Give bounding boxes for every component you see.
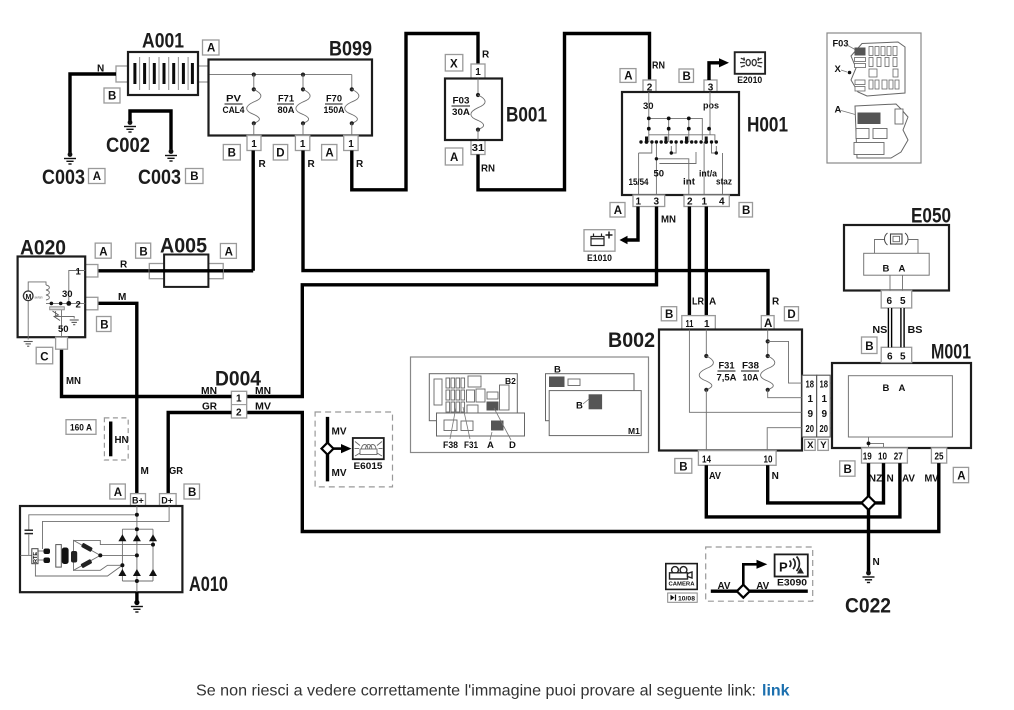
wire LR H001 pin2b to B002 pin11 bbox=[689, 207, 704, 317]
svg-text:50: 50 bbox=[58, 324, 69, 335]
svg-text:D: D bbox=[509, 440, 516, 451]
svg-text:B: B bbox=[108, 91, 116, 103]
wire N B002-10 to M001-10 bbox=[768, 463, 884, 503]
svg-text:link: link bbox=[762, 683, 790, 700]
svg-text:LR: LR bbox=[692, 297, 705, 308]
svg-text:F71: F71 bbox=[278, 94, 295, 105]
svg-text:1: 1 bbox=[348, 139, 354, 150]
svg-text:AV: AV bbox=[902, 474, 915, 485]
svg-text:B: B bbox=[665, 309, 673, 321]
svg-text:1: 1 bbox=[808, 394, 814, 405]
wire M A020-2 to A010 B+ bbox=[98, 292, 149, 494]
svg-text:15/54: 15/54 bbox=[629, 177, 650, 188]
lamp symbol E2010 bbox=[709, 52, 765, 86]
svg-text:C003: C003 bbox=[42, 166, 85, 189]
svg-text:int: int bbox=[683, 177, 696, 188]
wire R A020-1 to B099 PV bbox=[98, 260, 253, 271]
svg-text:M: M bbox=[118, 292, 126, 303]
svg-text:X: X bbox=[807, 440, 814, 451]
svg-text:20: 20 bbox=[806, 424, 815, 435]
ground C002 bbox=[106, 120, 150, 157]
svg-text:160 A: 160 A bbox=[70, 423, 92, 434]
svg-text:R: R bbox=[772, 297, 780, 308]
wire NZ M001-19 to ground C022 bbox=[869, 463, 880, 572]
svg-text:MN: MN bbox=[661, 215, 676, 226]
svg-text:F38: F38 bbox=[443, 440, 458, 451]
svg-text:1: 1 bbox=[702, 197, 708, 208]
svg-text:A: A bbox=[899, 383, 906, 394]
svg-text:staz: staz bbox=[716, 177, 732, 188]
svg-text:X: X bbox=[835, 64, 842, 75]
svg-text:E3090: E3090 bbox=[777, 578, 807, 589]
svg-text:1: 1 bbox=[236, 394, 242, 405]
svg-text:NS: NS bbox=[872, 325, 887, 336]
svg-text:M: M bbox=[141, 466, 149, 477]
svg-text:M: M bbox=[26, 294, 32, 301]
svg-text:C002: C002 bbox=[106, 134, 150, 157]
A020 internals bbox=[23, 267, 85, 347]
svg-text:1: 1 bbox=[300, 139, 306, 150]
svg-text:2: 2 bbox=[236, 407, 242, 418]
svg-text:80A: 80A bbox=[278, 105, 295, 116]
svg-text:AV: AV bbox=[756, 581, 769, 592]
svg-text:A: A bbox=[450, 152, 458, 164]
svg-text:A: A bbox=[225, 247, 233, 259]
svg-text:B2: B2 bbox=[505, 376, 516, 386]
svg-text:7,5A: 7,5A bbox=[717, 373, 737, 384]
wire R B099-PV to A005/A020 bbox=[251, 151, 254, 271]
svg-text:A: A bbox=[709, 297, 716, 308]
svg-text:B: B bbox=[139, 246, 147, 258]
svg-text:18: 18 bbox=[820, 379, 829, 390]
wire C002 to C003 B bbox=[130, 111, 171, 150]
svg-text:RN: RN bbox=[652, 61, 665, 72]
fusebox location inset B2/M1 bbox=[411, 357, 649, 453]
wire NS E050-6 to M001-6 bbox=[872, 275, 890, 347]
svg-text:1: 1 bbox=[636, 197, 642, 208]
svg-text:5: 5 bbox=[900, 296, 906, 307]
svg-text:B: B bbox=[683, 71, 691, 83]
svg-text:D: D bbox=[787, 309, 795, 321]
svg-text:MV: MV bbox=[255, 402, 271, 413]
svg-text:2: 2 bbox=[76, 300, 81, 311]
junction diamond N/NZ bbox=[862, 496, 876, 510]
svg-text:R: R bbox=[259, 159, 267, 170]
svg-text:MV: MV bbox=[332, 427, 347, 438]
svg-text:C022: C022 bbox=[845, 595, 891, 618]
svg-text:X: X bbox=[450, 59, 458, 71]
ground C022 bbox=[845, 571, 891, 618]
svg-text:AV: AV bbox=[718, 581, 731, 592]
wire R B099-F71 to B002 pin A bbox=[303, 151, 768, 317]
svg-text:A005: A005 bbox=[160, 235, 207, 258]
svg-text:MN: MN bbox=[255, 386, 271, 397]
svg-text:25: 25 bbox=[935, 452, 944, 463]
label B on NS/BS harness bbox=[862, 337, 878, 354]
svg-text:C003: C003 bbox=[138, 166, 181, 189]
module M001 bbox=[832, 341, 971, 485]
svg-text:HN: HN bbox=[115, 435, 129, 446]
svg-text:int/a: int/a bbox=[699, 169, 718, 180]
battery A001 bbox=[104, 30, 219, 104]
svg-text:GR: GR bbox=[169, 466, 184, 477]
svg-text:CAMERA: CAMERA bbox=[669, 582, 695, 588]
svg-text:14: 14 bbox=[702, 454, 711, 465]
svg-text:AV: AV bbox=[709, 471, 721, 482]
fuse F71 80A bbox=[273, 73, 315, 171]
svg-text:N: N bbox=[873, 557, 880, 568]
H001 internal contacts bbox=[629, 92, 733, 195]
wire MN H001 pin3 to D004 pin1 bbox=[247, 207, 676, 397]
svg-text:A: A bbox=[614, 205, 622, 217]
wire A H001 pin1b to B002 pin1 bbox=[706, 207, 716, 317]
svg-text:150A: 150A bbox=[324, 105, 345, 116]
svg-text:2: 2 bbox=[687, 197, 693, 208]
fuse F38 10A bbox=[741, 330, 775, 392]
svg-text:5: 5 bbox=[900, 351, 906, 362]
svg-text:B002: B002 bbox=[608, 329, 655, 352]
svg-text:M1: M1 bbox=[628, 426, 640, 436]
svg-text:R: R bbox=[356, 159, 364, 170]
svg-text:B099: B099 bbox=[329, 38, 372, 61]
svg-text:B001: B001 bbox=[506, 104, 547, 127]
svg-text:B: B bbox=[228, 148, 236, 160]
B002 bottom pins 14 10 bbox=[675, 451, 779, 482]
svg-text:20: 20 bbox=[820, 424, 829, 435]
svg-text:A: A bbox=[957, 471, 965, 483]
fuse box B001 bbox=[445, 55, 547, 175]
svg-text:A020: A020 bbox=[20, 237, 66, 260]
svg-text:9: 9 bbox=[808, 409, 814, 420]
ground A010 bbox=[131, 592, 143, 612]
svg-text:F31: F31 bbox=[719, 361, 736, 372]
wire MV M001-25 to D004 pin2 bbox=[247, 413, 939, 532]
svg-text:6: 6 bbox=[887, 296, 893, 307]
fuse box B002 bbox=[608, 307, 802, 451]
control unit E050 bbox=[844, 205, 951, 309]
B002 internal links bbox=[689, 330, 802, 451]
svg-text:50: 50 bbox=[654, 169, 665, 180]
svg-text:B: B bbox=[188, 487, 196, 499]
svg-text:10A: 10A bbox=[743, 373, 759, 384]
svg-text:E2010: E2010 bbox=[737, 75, 762, 86]
svg-text:B: B bbox=[742, 205, 750, 217]
svg-text:6: 6 bbox=[887, 351, 893, 362]
svg-text:D: D bbox=[276, 148, 284, 160]
wire GR D004 pin2 to A010 D+ bbox=[168, 413, 231, 494]
wire RN B001 pin 31 to H001 pin 2 bbox=[478, 34, 665, 190]
B002/M001 connector columns X Y bbox=[802, 375, 848, 451]
fusible link HN 160A bbox=[66, 418, 129, 460]
svg-text:A: A bbox=[114, 487, 122, 499]
svg-text:A: A bbox=[487, 440, 494, 451]
svg-text:1: 1 bbox=[76, 267, 82, 278]
lamp symbol E6015 bbox=[315, 412, 392, 487]
wire MN A020-50 to D004 pin1 bbox=[62, 349, 232, 397]
svg-text:R: R bbox=[308, 159, 316, 170]
svg-text:A: A bbox=[624, 71, 632, 83]
svg-text:Y: Y bbox=[820, 440, 827, 451]
svg-text:1: 1 bbox=[475, 67, 481, 78]
svg-text:RN: RN bbox=[481, 164, 495, 175]
svg-text:CAL4: CAL4 bbox=[223, 105, 246, 116]
svg-text:A: A bbox=[93, 171, 101, 183]
svg-text:N: N bbox=[887, 474, 894, 485]
svg-text:B+: B+ bbox=[132, 496, 144, 506]
ignition switch H001 bbox=[610, 69, 788, 217]
svg-text:B: B bbox=[576, 401, 583, 412]
svg-text:A: A bbox=[764, 318, 772, 330]
parking sensor symbol E3090 bbox=[706, 547, 813, 601]
svg-text:18: 18 bbox=[806, 379, 815, 390]
svg-text:A: A bbox=[835, 105, 842, 116]
svg-text:A: A bbox=[325, 148, 333, 160]
fusebox location inset F03/X/A top right bbox=[827, 33, 921, 163]
svg-text:30: 30 bbox=[62, 289, 73, 300]
fuse F31 7,5A bbox=[699, 330, 736, 451]
svg-text:27: 27 bbox=[894, 452, 903, 463]
svg-text:N: N bbox=[97, 64, 104, 75]
svg-text:F70: F70 bbox=[326, 94, 342, 105]
svg-text:NZ: NZ bbox=[869, 474, 883, 485]
svg-text:30A: 30A bbox=[452, 107, 470, 118]
svg-text:11: 11 bbox=[686, 319, 694, 330]
svg-text:E050: E050 bbox=[911, 205, 951, 228]
wire BS E050-5 to M001-5 bbox=[903, 275, 923, 347]
svg-text:C: C bbox=[40, 351, 48, 363]
svg-text:E6015: E6015 bbox=[354, 461, 384, 472]
svg-text:19: 19 bbox=[863, 452, 872, 463]
svg-text:B: B bbox=[679, 461, 687, 473]
svg-text:B: B bbox=[865, 341, 873, 353]
svg-text:BS: BS bbox=[908, 325, 923, 336]
svg-text:10/08: 10/08 bbox=[678, 596, 695, 603]
svg-text:MN: MN bbox=[66, 376, 81, 387]
svg-text:9: 9 bbox=[822, 409, 828, 420]
wire N battery to C003A bbox=[70, 64, 116, 154]
wire R B099-F70 to B001 pin 1 bbox=[352, 34, 490, 190]
svg-text:10: 10 bbox=[878, 452, 887, 463]
svg-text:B: B bbox=[190, 171, 198, 183]
svg-text:10: 10 bbox=[764, 454, 773, 465]
alternator A010 bbox=[20, 484, 228, 596]
svg-text:E1010: E1010 bbox=[587, 253, 612, 264]
svg-text:F03: F03 bbox=[833, 39, 849, 50]
svg-text:A010: A010 bbox=[189, 573, 228, 596]
svg-text:RTE: RTE bbox=[33, 552, 39, 563]
fuse F70 150A bbox=[322, 75, 364, 170]
svg-text:1: 1 bbox=[822, 394, 828, 405]
svg-text:avviam: avviam bbox=[35, 295, 43, 300]
svg-text:1: 1 bbox=[704, 319, 710, 330]
fuse box B099 bbox=[209, 38, 373, 136]
svg-text:Se non riesci a vedere corrett: Se non riesci a vedere correttamente l'i… bbox=[196, 683, 756, 700]
svg-text:1: 1 bbox=[251, 139, 257, 150]
svg-text:H001: H001 bbox=[747, 114, 788, 137]
fuse PV CAL4 bbox=[223, 73, 267, 171]
starter motor A020 bbox=[18, 237, 112, 364]
battery symbol E1010 bbox=[584, 207, 638, 265]
svg-text:MV: MV bbox=[332, 468, 347, 479]
svg-text:N: N bbox=[772, 471, 779, 482]
svg-text:B: B bbox=[883, 383, 890, 394]
camera badge bbox=[666, 564, 697, 603]
svg-text:31: 31 bbox=[472, 143, 485, 154]
svg-text:30: 30 bbox=[643, 101, 654, 112]
svg-text:R: R bbox=[482, 50, 490, 61]
svg-text:pos: pos bbox=[703, 101, 719, 112]
svg-text:M001: M001 bbox=[931, 341, 971, 364]
svg-text:3: 3 bbox=[654, 197, 660, 208]
svg-text:B: B bbox=[844, 464, 852, 476]
svg-text:A: A bbox=[899, 264, 906, 275]
connector A005 bbox=[136, 235, 237, 287]
svg-text:4: 4 bbox=[719, 197, 725, 208]
ground C003 A bbox=[42, 152, 105, 189]
svg-text:A: A bbox=[99, 246, 107, 258]
svg-text:R: R bbox=[120, 260, 128, 271]
svg-text:A001: A001 bbox=[142, 30, 184, 53]
svg-text:B: B bbox=[883, 264, 890, 275]
svg-text:PV: PV bbox=[226, 94, 242, 105]
connector D004 bbox=[201, 368, 271, 419]
A010 internals bbox=[21, 506, 170, 592]
wire AV B002-14 to M001-27 bbox=[706, 463, 900, 517]
svg-text:MV: MV bbox=[925, 474, 939, 485]
svg-text:A: A bbox=[207, 43, 215, 55]
svg-text:D+: D+ bbox=[161, 496, 173, 506]
svg-text:F31: F31 bbox=[464, 440, 479, 451]
svg-text:F38: F38 bbox=[742, 361, 759, 372]
svg-text:B: B bbox=[100, 320, 108, 332]
svg-text:P: P bbox=[779, 560, 788, 575]
ground C003 B bbox=[138, 149, 203, 189]
svg-text:F03: F03 bbox=[453, 96, 470, 107]
